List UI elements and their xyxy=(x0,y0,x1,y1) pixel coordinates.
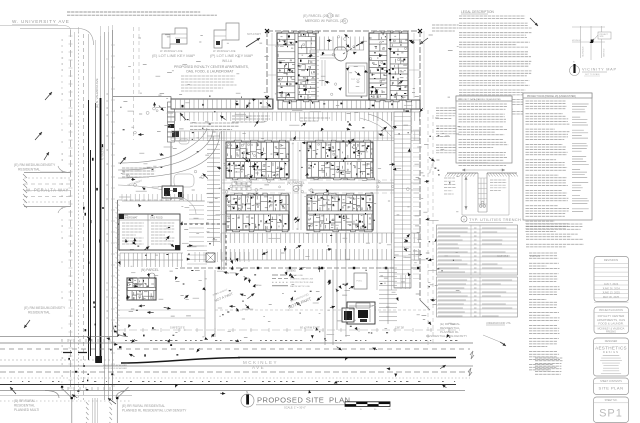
dimension specks row along bottom road xyxy=(10,341,457,382)
svg-text:PLANNED RL RESIDENTIAL LOW DEN: PLANNED RL RESIDENTIAL LOW DENSITY xyxy=(122,409,187,413)
svg-text:MCKINLEY: MCKINLEY xyxy=(572,40,582,42)
notes below box B xyxy=(526,224,584,247)
svg-text:S 89°57'33" E: S 89°57'33" E xyxy=(170,327,185,330)
svg-text:DOMESTIC WATER LINE: DOMESTIC WATER LINE xyxy=(290,278,314,281)
svg-text:VICINITY MAP: VICINITY MAP xyxy=(582,68,617,72)
svg-text:PROJECT/LOCATION: PROJECT/LOCATION xyxy=(599,309,623,312)
title block: sheet number box xyxy=(594,397,629,423)
svg-text:DESIGNER: DESIGNER xyxy=(605,340,618,343)
trash enclosure xyxy=(206,253,215,262)
svg-text:(E) LOT LINE KEY MAP: (E) LOT LINE KEY MAP xyxy=(152,53,195,58)
svg-text:(E) RM MEDIUM-DENSITY: (E) RM MEDIUM-DENSITY xyxy=(14,163,56,167)
svg-text:REVISIONS: REVISIONS xyxy=(604,258,618,262)
building: existing house xyxy=(127,278,156,300)
svg-text:FOOD & LAUNDR.: FOOD & LAUNDR. xyxy=(598,322,624,326)
vicinity map xyxy=(581,26,602,60)
notes band between carports and buildings xyxy=(232,116,270,122)
parking comb column (center drive) xyxy=(207,136,220,242)
pool (south) xyxy=(354,273,367,289)
courtyard walkway lines xyxy=(222,183,394,190)
project data box B (parcel 26 unadjusted) xyxy=(523,93,592,220)
svg-text:PROPOSED ROADWAY: PROPOSED ROADWAY xyxy=(103,367,128,370)
building: laundromat / OAS food xyxy=(119,214,180,250)
title block: project/location box xyxy=(594,307,629,334)
building C4 (mid SE) xyxy=(307,195,373,230)
svg-text:(E) RR RURAL: (E) RR RURAL xyxy=(14,399,36,403)
utilities trench table xyxy=(437,225,518,275)
courtyard: spa/pool shape xyxy=(334,47,347,61)
svg-text:WASTE SEPTIC LINE: WASTE SEPTIC LINE xyxy=(290,285,310,288)
fence line south with posts xyxy=(180,267,420,269)
svg-text:PLANNED MULTI: PLANNED MULTI xyxy=(14,408,39,412)
building C1 (mid NW) xyxy=(226,142,289,178)
top storm drain note xyxy=(67,12,217,15)
svg-text:(E) PARCEL (26) TO BE: (E) PARCEL (26) TO BE xyxy=(303,14,340,18)
svg-text:LEGAL DESCRIPTION: LEGAL DESCRIPTION xyxy=(461,10,495,14)
road: vertical road below McKinley xyxy=(71,398,73,423)
small dimension texts scattered xyxy=(309,215,319,217)
misc notes column left of trench detail xyxy=(436,108,456,118)
svg-text:MARKS AV: MARKS AV xyxy=(603,48,606,57)
svg-text:1287.58': 1287.58' xyxy=(395,327,405,330)
svg-text:RESIDENTIAL: RESIDENTIAL xyxy=(28,311,50,315)
east street lines xyxy=(428,110,433,345)
svg-text:OAS FOOD: OAS FOOD xyxy=(150,217,163,220)
landscape islands xyxy=(174,174,194,187)
svg-text:SHEET CONTENTS: SHEET CONTENTS xyxy=(600,380,622,383)
svg-text:60' ±0' R/W EXIST: 60' ±0' R/W EXIST xyxy=(300,327,320,330)
dark utility building xyxy=(162,186,183,198)
svg-text:AVE: AVE xyxy=(252,365,265,370)
building C2 (mid NE) xyxy=(307,142,373,178)
parcel boundary: top parcel xyxy=(267,30,420,32)
boundary jog vertical x=226 xyxy=(225,224,227,268)
title block: revisions box xyxy=(594,257,629,302)
utilities trench table section 2 xyxy=(437,277,518,317)
parking comb north of laundromat xyxy=(122,194,201,201)
svg-text:MERGED W/ PARCEL (25): MERGED W/ PARCEL (25) xyxy=(305,19,346,23)
north arrow xyxy=(241,394,254,407)
svg-text:W. PERALTA WAY: W. PERALTA WAY xyxy=(26,188,69,193)
dark cluster at intersection xyxy=(96,356,102,363)
road: W. University Ave curve xyxy=(20,29,94,46)
svg-text:GAP 47.00: GAP 47.00 xyxy=(497,254,510,258)
storage box column along west boundary xyxy=(168,102,175,107)
project data box A (parcel 25 adjusted) xyxy=(456,96,512,163)
east parking strip (vertical) xyxy=(394,112,411,288)
parking rows south of middle parcel xyxy=(221,233,419,243)
svg-text:(E) RM MEDIUM-DENSITY: (E) RM MEDIUM-DENSITY xyxy=(24,306,66,310)
svg-text:FRESNO: FRESNO xyxy=(606,331,616,334)
building C3 (mid SW) xyxy=(226,195,289,230)
dark lane dashes west approach xyxy=(63,352,87,354)
svg-text:POOL: POOL xyxy=(357,281,363,283)
utilities trench detail drawing xyxy=(447,172,517,174)
svg-text:MAY 30, 2025: MAY 30, 2025 xyxy=(603,295,620,299)
walkways top parcel xyxy=(320,55,336,86)
svg-text:JUNE 13, 2025: JUNE 13, 2025 xyxy=(602,291,620,295)
svg-text:(N) PARCEL: (N) PARCEL xyxy=(141,268,159,272)
road: E. McKinley Ave (bottom horizontal road) xyxy=(0,336,118,338)
svg-text:(E) RR RURAL RESIDENTIAL: (E) RR RURAL RESIDENTIAL xyxy=(122,404,165,408)
svg-text:1387121: 1387121 xyxy=(530,254,541,258)
road dark lane lines xyxy=(90,150,92,356)
parking row north courtyard xyxy=(311,37,364,51)
svg-text:SITE PLAN: SITE PLAN xyxy=(599,386,624,391)
key map 2: (P) lot line key map xyxy=(214,23,239,48)
svg-text:SHEET NO.: SHEET NO. xyxy=(605,399,618,402)
curb flares south leg xyxy=(61,387,72,398)
right-of-way dashed lines east of road xyxy=(134,27,140,140)
title block: sheet contents box xyxy=(594,378,629,395)
svg-text:(E) N. VALENCIA AVE: (E) N. VALENCIA AVE xyxy=(95,78,99,108)
svg-text:TYP. UTILITIES TRENCH: TYP. UTILITIES TRENCH xyxy=(469,217,521,222)
road: N. Valencia Ave (left vertical road) xyxy=(70,30,72,400)
west boundary upper x=171 xyxy=(170,97,172,201)
dark curving gutter line from intersection xyxy=(121,358,240,363)
svg-text:SP1: SP1 xyxy=(599,408,623,420)
svg-text:OAS, FOOD, & LAUNDROMAT: OAS, FOOD, & LAUNDROMAT xyxy=(186,70,233,74)
svg-text:W. UNIVERSITY AVE: W. UNIVERSITY AVE xyxy=(12,19,70,24)
building B2 (north-east apartment) xyxy=(369,33,408,100)
svg-text:DESIGN: DESIGN xyxy=(603,350,619,354)
svg-text:PARCEL LINE: PARCEL LINE xyxy=(290,274,303,277)
parking comb south of laundromat xyxy=(120,253,182,267)
utility pads east courtyard xyxy=(404,109,411,116)
svg-text:RESIDENTIAL: RESIDENTIAL xyxy=(14,404,35,408)
dark specks along left road xyxy=(102,207,103,209)
label: RR rural residential (top right) xyxy=(432,25,459,31)
svg-text:N: N xyxy=(246,390,248,394)
svg-text:JAN 7, 2024: JAN 7, 2024 xyxy=(604,282,619,286)
drive curve to east parking xyxy=(368,114,396,132)
svg-text:UNDERGROUND UTIL: UNDERGROUND UTIL xyxy=(486,322,512,325)
carport/garage row xyxy=(171,99,273,109)
key map 1: (E) lot line key map xyxy=(162,28,187,48)
tree circles courtyards xyxy=(255,189,258,192)
svg-text:PROJECT DATA (PARCEL 25) ADJUS: PROJECT DATA (PARCEL 25) ADJUSTED xyxy=(459,98,501,101)
intersection curb returns xyxy=(113,322,129,337)
parcel line at y=96 xyxy=(113,96,171,98)
svg-text:VALENCIA AV: VALENCIA AV xyxy=(582,45,585,57)
svg-text:A: A xyxy=(463,218,465,222)
right numeric column in box B xyxy=(572,104,589,211)
planning notes column xyxy=(529,253,560,370)
label: (E) RR rural residential planned RM (mid) xyxy=(190,123,239,129)
svg-text:NOT TO SCALE: NOT TO SCALE xyxy=(585,73,600,76)
svg-text:NOT A PART: NOT A PART xyxy=(247,33,261,36)
label: (E) V vacant planned xyxy=(122,168,155,177)
svg-text:LEGEND: LEGEND xyxy=(286,270,296,273)
svg-text:RESIDENTIAL: RESIDENTIAL xyxy=(18,168,40,172)
svg-text:W/LLA: W/LLA xyxy=(222,59,233,63)
svg-text:(P) LOT LINE KEY MAP: (P) LOT LINE KEY MAP xyxy=(210,53,253,58)
dimension annotations along road xyxy=(118,329,460,331)
building B1 (north-west apartment) xyxy=(277,33,316,100)
comb extension south east xyxy=(379,268,397,321)
engineer address block xyxy=(535,358,563,374)
leader arrows across plan xyxy=(224,272,229,273)
legal description paragraphs xyxy=(459,16,532,117)
mail kiosk cluster xyxy=(232,182,236,186)
svg-text:PROPOSED SITE: PROPOSED SITE xyxy=(257,395,324,404)
svg-text:PROPOSED ROADWAY: PROPOSED ROADWAY xyxy=(103,364,128,367)
svg-text:SCALE: 1" = 30'-0": SCALE: 1" = 30'-0" xyxy=(284,406,306,410)
title block: designer box xyxy=(594,338,629,376)
svg-text:JUNE 26, 2024: JUNE 26, 2024 xyxy=(602,286,620,290)
driveway approaches xyxy=(205,270,215,337)
courtyard: tot lot xyxy=(346,63,367,96)
gap walkway between building pairs xyxy=(293,142,301,230)
vicinity north arrow xyxy=(570,66,580,76)
boundary fence posts y=224 xyxy=(118,223,226,225)
parking aisle west of tot lot xyxy=(311,52,319,96)
parcel boundary: east side xyxy=(419,130,421,300)
entry drive curves from west xyxy=(118,128,207,163)
scale bar xyxy=(345,402,390,407)
road: W. Peralta Way stub xyxy=(24,172,71,174)
scattered annotation specks across plan xyxy=(121,35,462,338)
cabana building (dark) xyxy=(347,302,375,324)
station text specks along left road xyxy=(62,40,109,382)
svg-text:PROJECT DATA (PARCEL 26) (UNAD: PROJECT DATA (PARCEL 26) (UNADJUSTED) xyxy=(527,95,576,98)
property line: west side xyxy=(117,200,119,337)
svg-text:FIRE PROTECTION LINE: FIRE PROTECTION LINE xyxy=(290,282,314,284)
svg-text:PROPOSED ROYALTY CENTER APARTM: PROPOSED ROYALTY CENTER APARTMENTS, xyxy=(174,65,249,69)
svg-text:AESTHETICS: AESTHETICS xyxy=(595,346,627,351)
svg-text:TOT LOT: TOT LOT xyxy=(351,79,361,81)
